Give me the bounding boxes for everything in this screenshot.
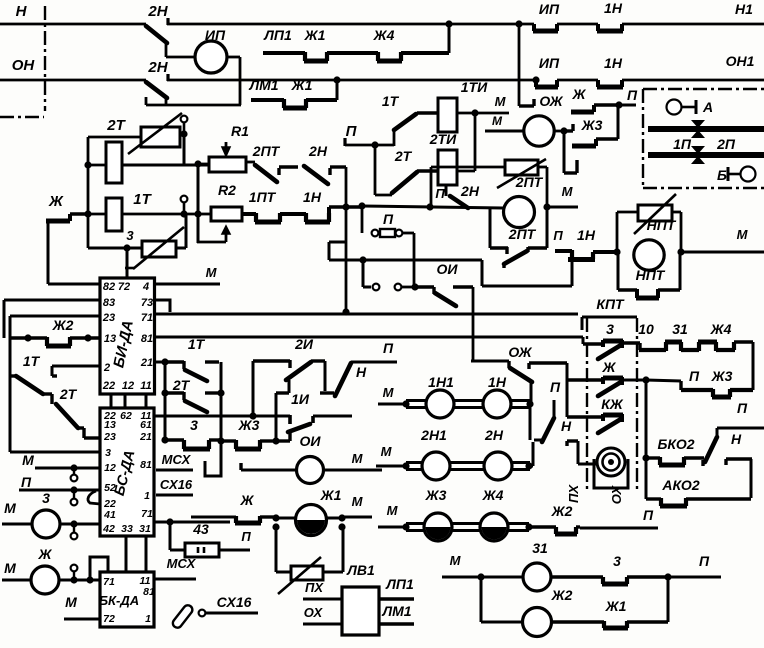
svg-text:М: М: [562, 184, 574, 199]
svg-text:ОХ: ОХ: [609, 484, 624, 504]
svg-text:1Н: 1Н: [303, 189, 322, 205]
R2 arm arrow: [197, 241, 226, 244]
wire OZh lower tick: [563, 131, 566, 173]
svg-text:33: 33: [121, 523, 133, 535]
dash-dot KPT left: [586, 318, 588, 492]
svg-text:3: 3: [105, 447, 111, 459]
svg-text:1ТИ: 1ТИ: [461, 79, 488, 95]
svg-text:Ж1: Ж1: [291, 77, 313, 93]
KPT transmitter: [597, 448, 625, 476]
wire vertical bus x346: [345, 167, 348, 313]
wire 1TI to M: [457, 112, 509, 115]
hook U below: [205, 441, 221, 476]
svg-text:Ж2: Ж2: [551, 503, 573, 519]
wire x221 down: [220, 393, 223, 441]
wire 2T box to R1: [122, 164, 209, 167]
svg-text:43: 43: [192, 521, 209, 537]
wire OZh vert: [566, 363, 569, 417]
svg-text:Ж3: Ж3: [711, 368, 733, 384]
wire IP right: [227, 56, 240, 59]
svg-text:ЛМ1: ЛМ1: [248, 77, 278, 93]
wire y285 to P1N chain: [481, 260, 484, 286]
svg-text:71: 71: [103, 576, 115, 588]
block BI-DA: [100, 278, 155, 394]
wire A long: [154, 336, 583, 339]
svg-text:12: 12: [104, 462, 116, 474]
svg-text:П: П: [241, 529, 251, 544]
svg-text:1Н1: 1Н1: [428, 374, 454, 390]
svg-text:3: 3: [606, 321, 614, 337]
junction: [677, 248, 684, 255]
junction: [613, 248, 620, 255]
svg-text:М: М: [65, 594, 77, 610]
wire M bus: [154, 313, 578, 316]
relay coil OZh: [524, 116, 554, 146]
svg-text:КЖ: КЖ: [601, 396, 624, 412]
wire bus to varistor 2T: [88, 136, 141, 139]
svg-text:П: П: [737, 400, 748, 416]
wire N1 rail: [167, 23, 534, 26]
wire pin73 hook: [155, 300, 171, 312]
wire y260: [329, 259, 482, 262]
svg-text:22: 22: [102, 380, 115, 392]
svg-text:23: 23: [102, 312, 115, 324]
wire pin82: [48, 283, 100, 286]
svg-text:1Н: 1Н: [488, 374, 507, 390]
svg-text:81: 81: [143, 586, 155, 598]
rail 1P-2P lower: [648, 152, 764, 158]
wire IP bottom loop: [146, 104, 241, 107]
svg-text:73: 73: [141, 297, 153, 309]
wire 3 to pin72: [126, 248, 129, 278]
wire OH rail left: [0, 79, 146, 82]
svg-text:Н: Н: [16, 3, 28, 20]
svg-text:2ПТ: 2ПТ: [252, 143, 281, 159]
junction: [615, 101, 622, 108]
svg-text:12: 12: [122, 380, 134, 392]
svg-text:Ж2: Ж2: [52, 317, 74, 333]
terminal circle 1T slider: [181, 196, 188, 203]
wire OH1 rail: [167, 79, 536, 82]
svg-text:ПХ: ПХ: [566, 484, 581, 503]
svg-text:П: П: [435, 186, 445, 201]
svg-text:М: М: [450, 553, 462, 568]
svg-text:П: П: [346, 123, 358, 140]
wire Zh vertical bus x88: [87, 137, 90, 248]
svg-text:1: 1: [144, 490, 150, 502]
svg-text:Ж4: Ж4: [482, 487, 504, 503]
svg-text:41: 41: [103, 509, 116, 521]
wire y206 to 2PT coil: [362, 206, 503, 208]
svg-text:2Н1: 2Н1: [420, 427, 447, 443]
svg-text:1Т: 1Т: [23, 353, 41, 369]
varistor PX loop: [275, 527, 278, 572]
wire chain up to N1: [448, 22, 451, 53]
svg-text:R2: R2: [218, 182, 236, 198]
svg-text:Ж2: Ж2: [551, 587, 573, 603]
svg-text:2Н: 2Н: [308, 143, 328, 159]
svg-text:1Т: 1Т: [382, 93, 400, 109]
svg-text:61: 61: [140, 419, 152, 431]
svg-text:Ж: Ж: [602, 359, 617, 375]
svg-text:П: П: [699, 553, 710, 569]
block BK-DA: [100, 572, 154, 627]
svg-text:82: 82: [103, 281, 115, 293]
svg-text:13: 13: [104, 419, 116, 431]
wire pin21 BI-DA: [154, 361, 165, 364]
wire down from M node: [474, 113, 477, 171]
svg-text:13: 13: [104, 333, 116, 345]
svg-text:М: М: [4, 560, 16, 576]
wire to 1T box: [88, 213, 106, 216]
svg-text:81: 81: [141, 333, 153, 345]
svg-text:Н1: Н1: [735, 1, 753, 17]
wire left frame: [9, 316, 12, 452]
svg-text:БКО2: БКО2: [657, 436, 694, 452]
svg-text:МСХ: МСХ: [167, 556, 197, 571]
svg-text:П: П: [383, 340, 394, 356]
wire pin23: [10, 315, 100, 318]
svg-text:1ПТ: 1ПТ: [249, 189, 277, 205]
varistor 2T: [141, 127, 180, 147]
svg-text:2Т: 2Т: [106, 117, 126, 134]
svg-text:2ПТ: 2ПТ: [508, 226, 537, 242]
wire 43 P stub: [219, 549, 250, 552]
svg-text:Ж1: Ж1: [605, 598, 627, 614]
svg-text:23: 23: [103, 431, 116, 443]
svg-text:Ж1: Ж1: [304, 27, 326, 43]
junction: [180, 210, 187, 217]
svg-text:М: М: [352, 494, 364, 509]
wire P down: [374, 145, 377, 195]
svg-text:П: П: [553, 228, 563, 243]
svg-text:52: 52: [104, 482, 116, 494]
svg-text:ЛП1: ЛП1: [263, 27, 292, 43]
svg-text:72: 72: [118, 281, 130, 293]
svg-text:Ж: Ж: [48, 193, 64, 210]
wire x646 down: [645, 380, 648, 458]
wire Zh entry: [46, 219, 70, 224]
svg-text:Ж4: Ж4: [373, 27, 395, 43]
wire riser: [90, 557, 108, 580]
svg-text:П: П: [643, 507, 654, 523]
wire pin2: [52, 365, 100, 368]
svg-text:ОХ: ОХ: [304, 605, 324, 620]
svg-text:НПТ: НПТ: [636, 267, 666, 283]
junction: [333, 76, 340, 83]
wire pin11 long: [154, 415, 290, 418]
svg-text:42: 42: [102, 523, 115, 535]
junction: [194, 210, 201, 217]
svg-text:31: 31: [532, 540, 548, 556]
svg-text:ЛМ1: ЛМ1: [381, 603, 411, 619]
svg-text:31: 31: [672, 321, 688, 337]
wire pin71 right: [154, 521, 230, 524]
wire 2I output to node: [288, 380, 291, 393]
wire 2TI right: [457, 170, 475, 173]
svg-text:П: П: [627, 87, 638, 103]
svg-text:R1: R1: [231, 123, 249, 139]
svg-text:СХ16: СХ16: [217, 594, 252, 610]
svg-text:П: П: [689, 368, 700, 384]
svg-text:П: П: [550, 379, 561, 395]
svg-text:81: 81: [140, 459, 152, 471]
svg-text:3: 3: [613, 553, 621, 569]
svg-text:Ж3: Ж3: [238, 417, 260, 433]
wire N1 to right edge: [622, 23, 764, 26]
svg-text:ОН: ОН: [12, 57, 36, 74]
wire x165 down: [164, 393, 167, 440]
svg-text:Ж: Ж: [38, 546, 53, 562]
svg-text:2Н: 2Н: [460, 183, 480, 199]
wire branch from bus: [329, 241, 346, 244]
svg-text:1: 1: [145, 613, 151, 625]
svg-text:Н: Н: [561, 418, 572, 434]
svg-text:Ж1: Ж1: [320, 487, 342, 503]
svg-text:М: М: [206, 265, 218, 280]
svg-text:2П: 2П: [716, 136, 736, 152]
svg-text:ОИ: ОИ: [300, 433, 322, 449]
wire pin83: [4, 299, 100, 302]
svg-text:Н: Н: [356, 364, 367, 380]
svg-text:21: 21: [140, 357, 153, 369]
svg-text:Ж3: Ж3: [425, 487, 447, 503]
svg-text:4: 4: [142, 281, 149, 293]
wire bus right: [752, 342, 755, 390]
svg-text:М: М: [492, 114, 503, 128]
svg-text:71: 71: [141, 312, 153, 324]
svg-text:М: М: [381, 444, 393, 459]
KPT top bracket: [582, 337, 585, 344]
svg-text:ЛП1: ЛП1: [385, 576, 414, 592]
svg-text:ОЖ: ОЖ: [539, 93, 563, 109]
hook P to pin22: [88, 491, 100, 504]
wire 1T box right: [122, 213, 198, 216]
dash-dot border horizontal: [0, 116, 44, 118]
plug: [171, 603, 194, 629]
junction: [543, 203, 550, 210]
svg-text:ОЖ: ОЖ: [508, 344, 532, 360]
lower branch Zh2 lamp: [480, 577, 483, 622]
wire H rail left: [0, 23, 146, 26]
svg-text:Ж: Ж: [240, 492, 255, 508]
svg-text:1Н: 1Н: [604, 55, 623, 71]
svg-text:Ж: Ж: [572, 86, 587, 102]
wire BK pin11: [154, 578, 196, 581]
svg-text:Н: Н: [731, 431, 742, 447]
block link verticals: [110, 394, 113, 408]
svg-text:2Т: 2Т: [172, 377, 191, 393]
junction: [84, 210, 91, 217]
wire R1 right: [246, 161, 255, 164]
terminal circle 2T slider: [181, 116, 188, 123]
svg-text:72: 72: [103, 613, 115, 625]
svg-text:Ж4: Ж4: [710, 321, 732, 337]
svg-text:ИП: ИП: [539, 55, 560, 71]
svg-text:ОН1: ОН1: [726, 53, 755, 69]
wire P bus: [343, 138, 346, 146]
svg-text:БК-ДА: БК-ДА: [99, 593, 139, 608]
svg-text:ИП: ИП: [539, 1, 560, 17]
junction: [445, 20, 452, 27]
svg-text:ПХ: ПХ: [305, 580, 324, 595]
svg-text:М: М: [495, 94, 507, 109]
wire blade2N to IP: [165, 42, 168, 57]
svg-text:1П: 1П: [673, 136, 692, 152]
svg-text:2: 2: [103, 362, 110, 374]
svg-text:2Т: 2Т: [59, 386, 78, 402]
junction: [342, 308, 349, 315]
svg-text:А: А: [702, 99, 713, 115]
svg-text:1И: 1И: [291, 391, 310, 407]
wire slider to R1 bus: [183, 136, 186, 166]
wire to 2T box: [84, 161, 91, 168]
block BS-DA: [100, 408, 154, 536]
svg-text:31: 31: [139, 523, 151, 535]
svg-text:М: М: [352, 451, 364, 466]
svg-text:1Т: 1Т: [133, 191, 152, 208]
svg-text:1Т: 1Т: [188, 336, 206, 352]
svg-text:М: М: [383, 385, 395, 400]
svg-text:П: П: [383, 211, 394, 227]
svg-text:АКО2: АКО2: [661, 477, 699, 493]
wire Zh left vert: [47, 221, 50, 284]
svg-text:3: 3: [190, 417, 198, 433]
svg-text:Ж3: Ж3: [581, 117, 603, 133]
svg-text:2ТИ: 2ТИ: [429, 131, 457, 147]
svg-text:83: 83: [103, 297, 115, 309]
wire IP down: [518, 24, 521, 99]
svg-text:62: 62: [120, 410, 132, 422]
wire OH1 to right edge: [622, 79, 764, 82]
svg-text:М: М: [737, 227, 749, 242]
wire chain up to OH1: [336, 80, 339, 100]
wire x170 down: [169, 522, 172, 550]
svg-text:СХ16: СХ16: [160, 477, 193, 492]
relay coil NPT: [634, 240, 664, 270]
rail 1P-2P upper: [648, 126, 764, 132]
svg-text:Б: Б: [717, 167, 727, 183]
svg-text:М: М: [22, 452, 34, 468]
svg-text:2Н: 2Н: [147, 3, 168, 20]
svg-text:2И: 2И: [294, 336, 314, 352]
junction: [560, 127, 567, 134]
svg-text:3: 3: [126, 228, 134, 243]
svg-text:2Т: 2Т: [394, 148, 413, 164]
svg-text:2Н: 2Н: [484, 427, 504, 443]
contact N fixed: [724, 459, 727, 465]
wire AKO2 right: [750, 459, 753, 498]
svg-text:3: 3: [42, 490, 50, 506]
svg-text:КПТ: КПТ: [596, 296, 625, 312]
svg-text:М: М: [387, 503, 399, 518]
junction: [342, 203, 349, 210]
svg-text:П: П: [21, 474, 32, 490]
svg-text:11: 11: [140, 380, 151, 392]
wire jacks row: [362, 260, 365, 287]
junction: [194, 160, 201, 167]
svg-text:ОИ: ОИ: [437, 261, 459, 277]
svg-text:МСХ: МСХ: [162, 452, 192, 467]
svg-text:М: М: [4, 500, 16, 516]
svg-text:71: 71: [141, 508, 153, 520]
block link verticals 2: [125, 536, 128, 572]
wire pin 4 M stub: [155, 283, 221, 286]
svg-text:1Н: 1Н: [577, 227, 596, 243]
svg-text:ЛВ1: ЛВ1: [346, 562, 375, 578]
svg-text:10: 10: [638, 321, 654, 337]
junction: [371, 141, 378, 148]
dash-dot KPT right: [636, 318, 638, 492]
relay coil 2PT: [504, 197, 535, 228]
svg-text:2Н: 2Н: [147, 59, 168, 76]
terminal A: [667, 100, 682, 115]
svg-text:21: 21: [139, 431, 152, 443]
dash-dot border vertical: [44, 6, 46, 111]
legend box border: [643, 88, 764, 90]
svg-text:1Н: 1Н: [604, 0, 623, 16]
